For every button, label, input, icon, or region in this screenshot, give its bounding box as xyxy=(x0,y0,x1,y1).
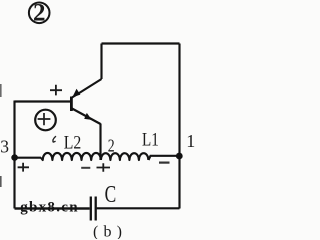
wire bottom left over watermark xyxy=(15,207,90,209)
polarity minus right of L2 xyxy=(81,167,90,169)
wire after L1 to node 1 xyxy=(149,156,180,160)
wire emitter diagonal xyxy=(72,109,101,125)
polarity plus above base xyxy=(50,85,62,96)
svg-text:1: 1 xyxy=(186,131,195,151)
wire collector diagonal xyxy=(72,79,102,98)
svg-text:(b): (b) xyxy=(93,223,122,239)
circled plus source indicator xyxy=(35,110,56,131)
small arrow mark left of L2 label xyxy=(53,136,56,142)
node 1 junction dot xyxy=(176,153,183,160)
wire bottom right segment xyxy=(97,207,180,209)
capacitor C plate left xyxy=(90,197,92,221)
inductor L2 xyxy=(41,153,101,160)
wire bottom left segment xyxy=(15,207,90,209)
polarity plus at node 3 xyxy=(18,163,29,172)
svg-text:3: 3 xyxy=(0,137,9,157)
svg-text:2: 2 xyxy=(33,0,46,27)
figure number badge circled 2 xyxy=(29,0,50,27)
svg-text:L1: L1 xyxy=(142,129,159,150)
wire base horizontal xyxy=(15,100,71,102)
wire left vertical xyxy=(13,101,15,209)
wire top horizontal xyxy=(102,42,180,44)
capacitor C plate right xyxy=(95,197,97,221)
wire collector vertical xyxy=(100,44,102,80)
transistor Q base bar xyxy=(70,97,73,112)
wire node3 to L2 xyxy=(15,157,42,159)
svg-text:2: 2 xyxy=(108,135,115,155)
transistor collector arrowhead xyxy=(72,89,80,98)
polarity plus below node 2 xyxy=(97,163,111,172)
wire right vertical xyxy=(178,44,180,209)
node 3 junction dot xyxy=(11,154,18,161)
svg-text:L2: L2 xyxy=(64,133,82,154)
polarity minus near node 1 xyxy=(159,162,170,164)
edge scan artifact top xyxy=(0,84,2,97)
inductor L1 xyxy=(101,153,148,160)
edge scan artifact bottom xyxy=(0,176,2,187)
transistor emitter arrowhead xyxy=(84,113,92,120)
wire emitter vertical to node 2 xyxy=(99,124,101,161)
svg-text:C: C xyxy=(105,182,117,208)
